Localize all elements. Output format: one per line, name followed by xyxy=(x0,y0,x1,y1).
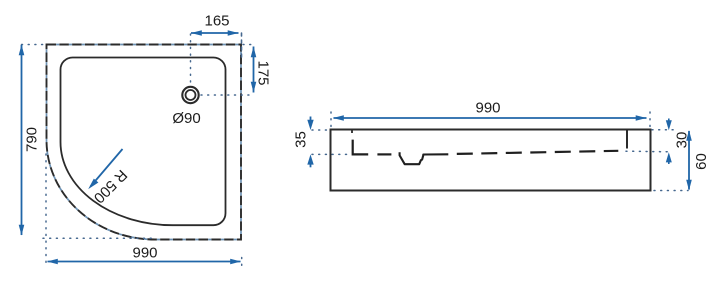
centerline dotted vertical through drain xyxy=(190,34,192,85)
centerline dotted horizontal from drain to 175 dim xyxy=(201,94,254,96)
svg-text:175: 175 xyxy=(255,60,272,85)
dimension 30 (arrows inward from outside) xyxy=(666,119,672,165)
990 extension left (side view) xyxy=(330,112,332,128)
svg-text:Ø90: Ø90 xyxy=(172,110,200,127)
floor hidden-line dashes right of trap (sloped) xyxy=(457,151,619,154)
inner tray rim outline xyxy=(61,58,226,226)
svg-text:R 500: R 500 xyxy=(90,166,130,206)
rim tick top-left xyxy=(351,130,353,133)
790 extension top xyxy=(22,44,47,46)
phantom dotted left edge + 990 extension left xyxy=(45,154,47,264)
60 bottom extension dots xyxy=(654,190,688,192)
165 extension along right edge xyxy=(241,33,243,58)
30/60 top extension dots xyxy=(652,129,676,131)
svg-text:165: 165 xyxy=(204,13,229,30)
dimension 165 line with arrows xyxy=(191,30,239,36)
dimension 990 (side view) xyxy=(333,115,647,121)
990 extension right (side view) xyxy=(649,112,651,128)
dimension 60 xyxy=(686,130,692,191)
990 extension right xyxy=(241,258,243,267)
side profile rectangle xyxy=(331,130,651,191)
dimension 790 line with arrows xyxy=(19,45,25,236)
dimension 990 bottom line with arrows xyxy=(47,259,241,265)
dimension 35 (arrows inward from outside) xyxy=(307,117,313,168)
svg-text:790: 790 xyxy=(24,127,41,152)
drain trap notch xyxy=(400,152,449,164)
phantom dotted bottom edge across curve xyxy=(43,237,152,239)
svg-text:35: 35 xyxy=(293,131,310,148)
floor hidden-line dashes left of trap xyxy=(377,153,391,155)
drain circle outer xyxy=(182,87,198,103)
svg-text:990: 990 xyxy=(475,100,500,117)
30 bottom extension dots xyxy=(626,150,668,153)
floor hidden-line left vertical + first dash xyxy=(353,140,369,155)
35 extension bottom dots xyxy=(312,153,350,155)
outer tray outline (square with large rounded bottom-left corner) xyxy=(47,45,242,240)
svg-text:990: 990 xyxy=(132,245,157,262)
dimension 175 line with arrows xyxy=(251,47,257,93)
radius R 500 leader arrow xyxy=(88,149,122,189)
selection dash overlay on outer outline (blue gap fillers) xyxy=(47,45,242,240)
175 extension top xyxy=(243,44,254,46)
rim line right vertical xyxy=(626,130,628,149)
svg-text:60: 60 xyxy=(693,153,710,170)
35 extension top dots xyxy=(312,129,328,131)
drain circle inner xyxy=(186,90,196,100)
